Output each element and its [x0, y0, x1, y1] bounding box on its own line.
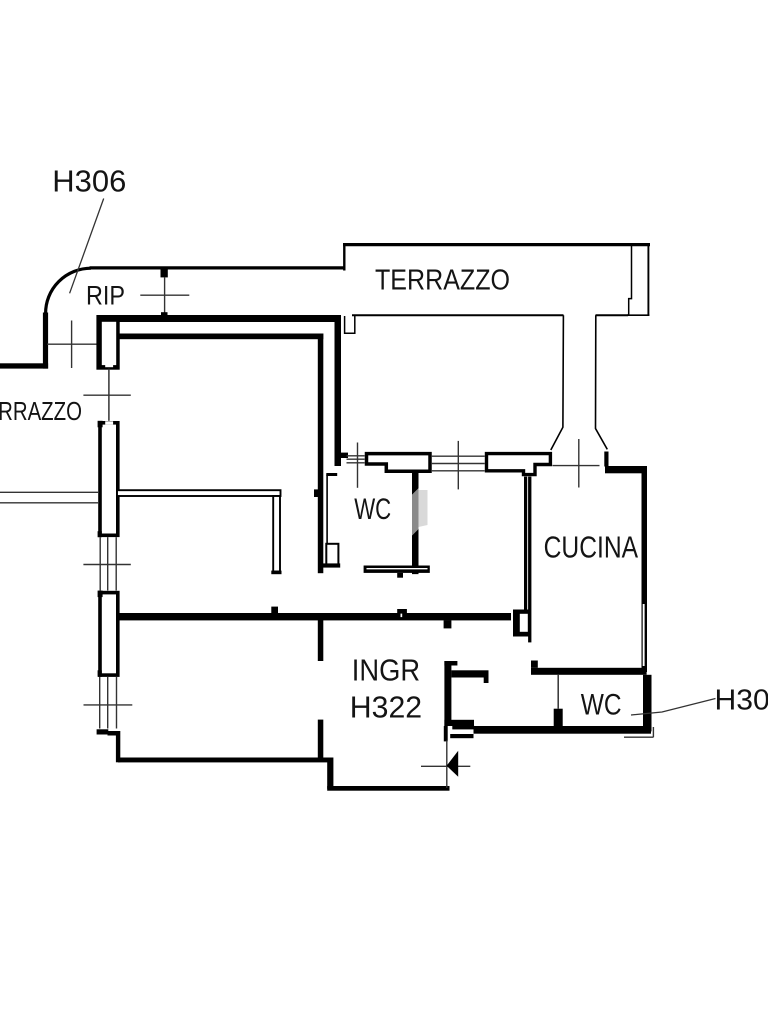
wire room1 right wall [318, 334, 324, 574]
node partition tab on room1 wall [314, 489, 320, 497]
wire kitchen top-left corner piece [604, 452, 608, 467]
wire wc2 door opening line [557, 675, 559, 709]
wire kitchen left wall bottom block pocket [520, 614, 528, 632]
node door jamb notch lower on box1 top [105, 421, 113, 424]
wire partition vertical double line [273, 496, 280, 572]
node entrance arrow head [447, 751, 459, 777]
wire corridor hollow wall strip [326, 475, 328, 546]
wire entrance door jamb line [446, 741, 448, 789]
wire window2 dimension cross [84, 704, 133, 706]
wire light shaft right line [596, 315, 608, 449]
node tick above wc2 top wall [531, 661, 538, 668]
node tick square on RIP boundary [161, 268, 168, 278]
wire wc1 right wall grey halo [419, 490, 428, 527]
node tick above main wall at wc door [397, 609, 407, 614]
wire wc2 top wall [531, 668, 647, 675]
wire kitchen left wall bottom block [513, 610, 529, 637]
wire wc2 door leaf [554, 709, 563, 729]
wire entrance bottom wall [327, 786, 449, 791]
wire top window dimension tick 2 [457, 441, 459, 490]
wire wc1 right wall mid-black [412, 471, 419, 495]
wire kitchen left wall outer line [528, 477, 531, 643]
wire partition horizontal double line [117, 490, 281, 496]
wire apartment top wall [97, 315, 341, 322]
wire leader line H306 top-left [70, 199, 104, 294]
wire left terrace dimension vertical [71, 321, 73, 369]
wire wc1 right wall grey middle [412, 488, 419, 536]
wire wc2 bottom wall [474, 726, 652, 734]
wire room3 door stub upper [318, 620, 324, 661]
wire wc1 bottom wall slit [367, 568, 428, 570]
wire left terrace outer wall bottom [0, 363, 48, 368]
wire kitchen door sill line [553, 465, 600, 467]
node door jamb notch upper [105, 363, 113, 368]
window glazing top band middle [432, 456, 485, 471]
svg-text:WC: WC [581, 689, 622, 722]
wire window1 dimension cross [83, 564, 130, 566]
svg-text:H306: H306 [52, 164, 126, 199]
wire kitchen top wall [605, 466, 647, 473]
svg-text:RIP: RIP [86, 281, 125, 311]
wire wc1 right wall lower [412, 529, 419, 574]
wire terrazzo right edge [647, 244, 649, 316]
wire corridor hollow wall top cap [326, 473, 337, 476]
wire corridor wall upper right [335, 321, 342, 466]
wire room3 door stub lower [318, 720, 324, 759]
wire terrazzo bottom edge main [352, 314, 564, 316]
wire kitchen right wall [642, 473, 648, 672]
wire terrazzo bottom edge middle [596, 314, 629, 316]
wire entrance right wall bottom foot [444, 720, 474, 726]
wire entrance right wall top cap [444, 661, 457, 666]
wire left terrace railing lines [0, 492, 98, 503]
wire main horizontal wall [117, 613, 511, 620]
wall hollow segment left 2 [100, 593, 118, 676]
svg-text:WC: WC [354, 493, 391, 526]
window slit kitchen right wall [643, 604, 645, 666]
svg-text:INGR: INGR [352, 653, 420, 688]
wire RIP top boundary line [90, 266, 345, 269]
node tick below main wall [444, 620, 452, 628]
wire leader line H306 right [631, 699, 716, 716]
node partition foot cap [271, 571, 281, 575]
wire step down to entrance wall [327, 758, 333, 789]
wire kitchen left wall inner line [524, 477, 527, 610]
wire bottom-left corner wall down [116, 731, 120, 762]
wire wc2 bottom wall left double-line part [452, 726, 474, 730]
wire terrazzo bottom edge right of pillar [627, 314, 649, 316]
wire curved outer wall top-left [46, 268, 91, 313]
wire door dimension cross left wall [83, 394, 130, 396]
wire room3 bottom wall [118, 758, 333, 763]
wire terrazzo top boundary [343, 243, 650, 246]
wire terrazzo pillar notch [629, 246, 632, 316]
wall hollow left wall upper box [96, 315, 119, 370]
wire left terrace outer wall vertical [43, 313, 48, 369]
wire terrazzo left edge vertical [343, 243, 345, 271]
wire RIP dimension vertical [164, 277, 166, 314]
wire entrance right wall bottom stub [444, 726, 448, 741]
wire corridor wall foot hook [335, 453, 349, 458]
wire step rectangle at terrace-wall junction [345, 315, 355, 335]
wire light shaft left line [551, 315, 564, 450]
wire wc1 right wall upper [412, 471, 419, 497]
wire room1 top wall inner [117, 334, 323, 340]
window glazing left 2 [100, 677, 117, 729]
window sill box 1 outer wall stepped [367, 454, 431, 472]
wire bottom-left corner cap [97, 729, 109, 734]
wire wc2 corner shadow lines [624, 727, 653, 737]
svg-text:TERRAZZO: TERRAZZO [375, 265, 510, 297]
wire door opening line left wall [108, 369, 110, 421]
node tick below wall segment [484, 678, 489, 684]
window glazing left 1 [100, 537, 116, 590]
wire entrance arrow line [421, 765, 470, 767]
node tick above main wall [271, 607, 278, 614]
wire wall segment right of entrance wall [451, 670, 488, 677]
node tick below wc1 bottom wall [397, 573, 403, 578]
svg-text:CUCINA: CUCINA [544, 530, 639, 565]
wall hollow box corridor bottom [326, 544, 338, 565]
wire entrance right wall [444, 661, 451, 726]
wire top window dimension tick 1 [357, 443, 359, 488]
wire left terrace dimension cross [47, 343, 98, 345]
wire corridor hollow box bottom cap [321, 563, 340, 567]
wire bottom-left corner step [108, 731, 120, 736]
wire RIP dimension cross [140, 294, 189, 296]
wire wc1 bottom wall [364, 566, 430, 573]
node tick dot bottom of RIP dimension [161, 312, 168, 315]
wire wc2 right wall [643, 675, 652, 732]
window sill box 2 outer wall with notch [487, 454, 551, 475]
wire kitchen door dimension tick [578, 439, 580, 488]
svg-text:H306: H306 [715, 685, 768, 717]
svg-text:H322: H322 [350, 690, 422, 725]
wall hollow segment left 1 [100, 423, 118, 536]
svg-text:TERRAZZO: TERRAZZO [0, 396, 82, 426]
window glazing top band left [347, 456, 365, 463]
